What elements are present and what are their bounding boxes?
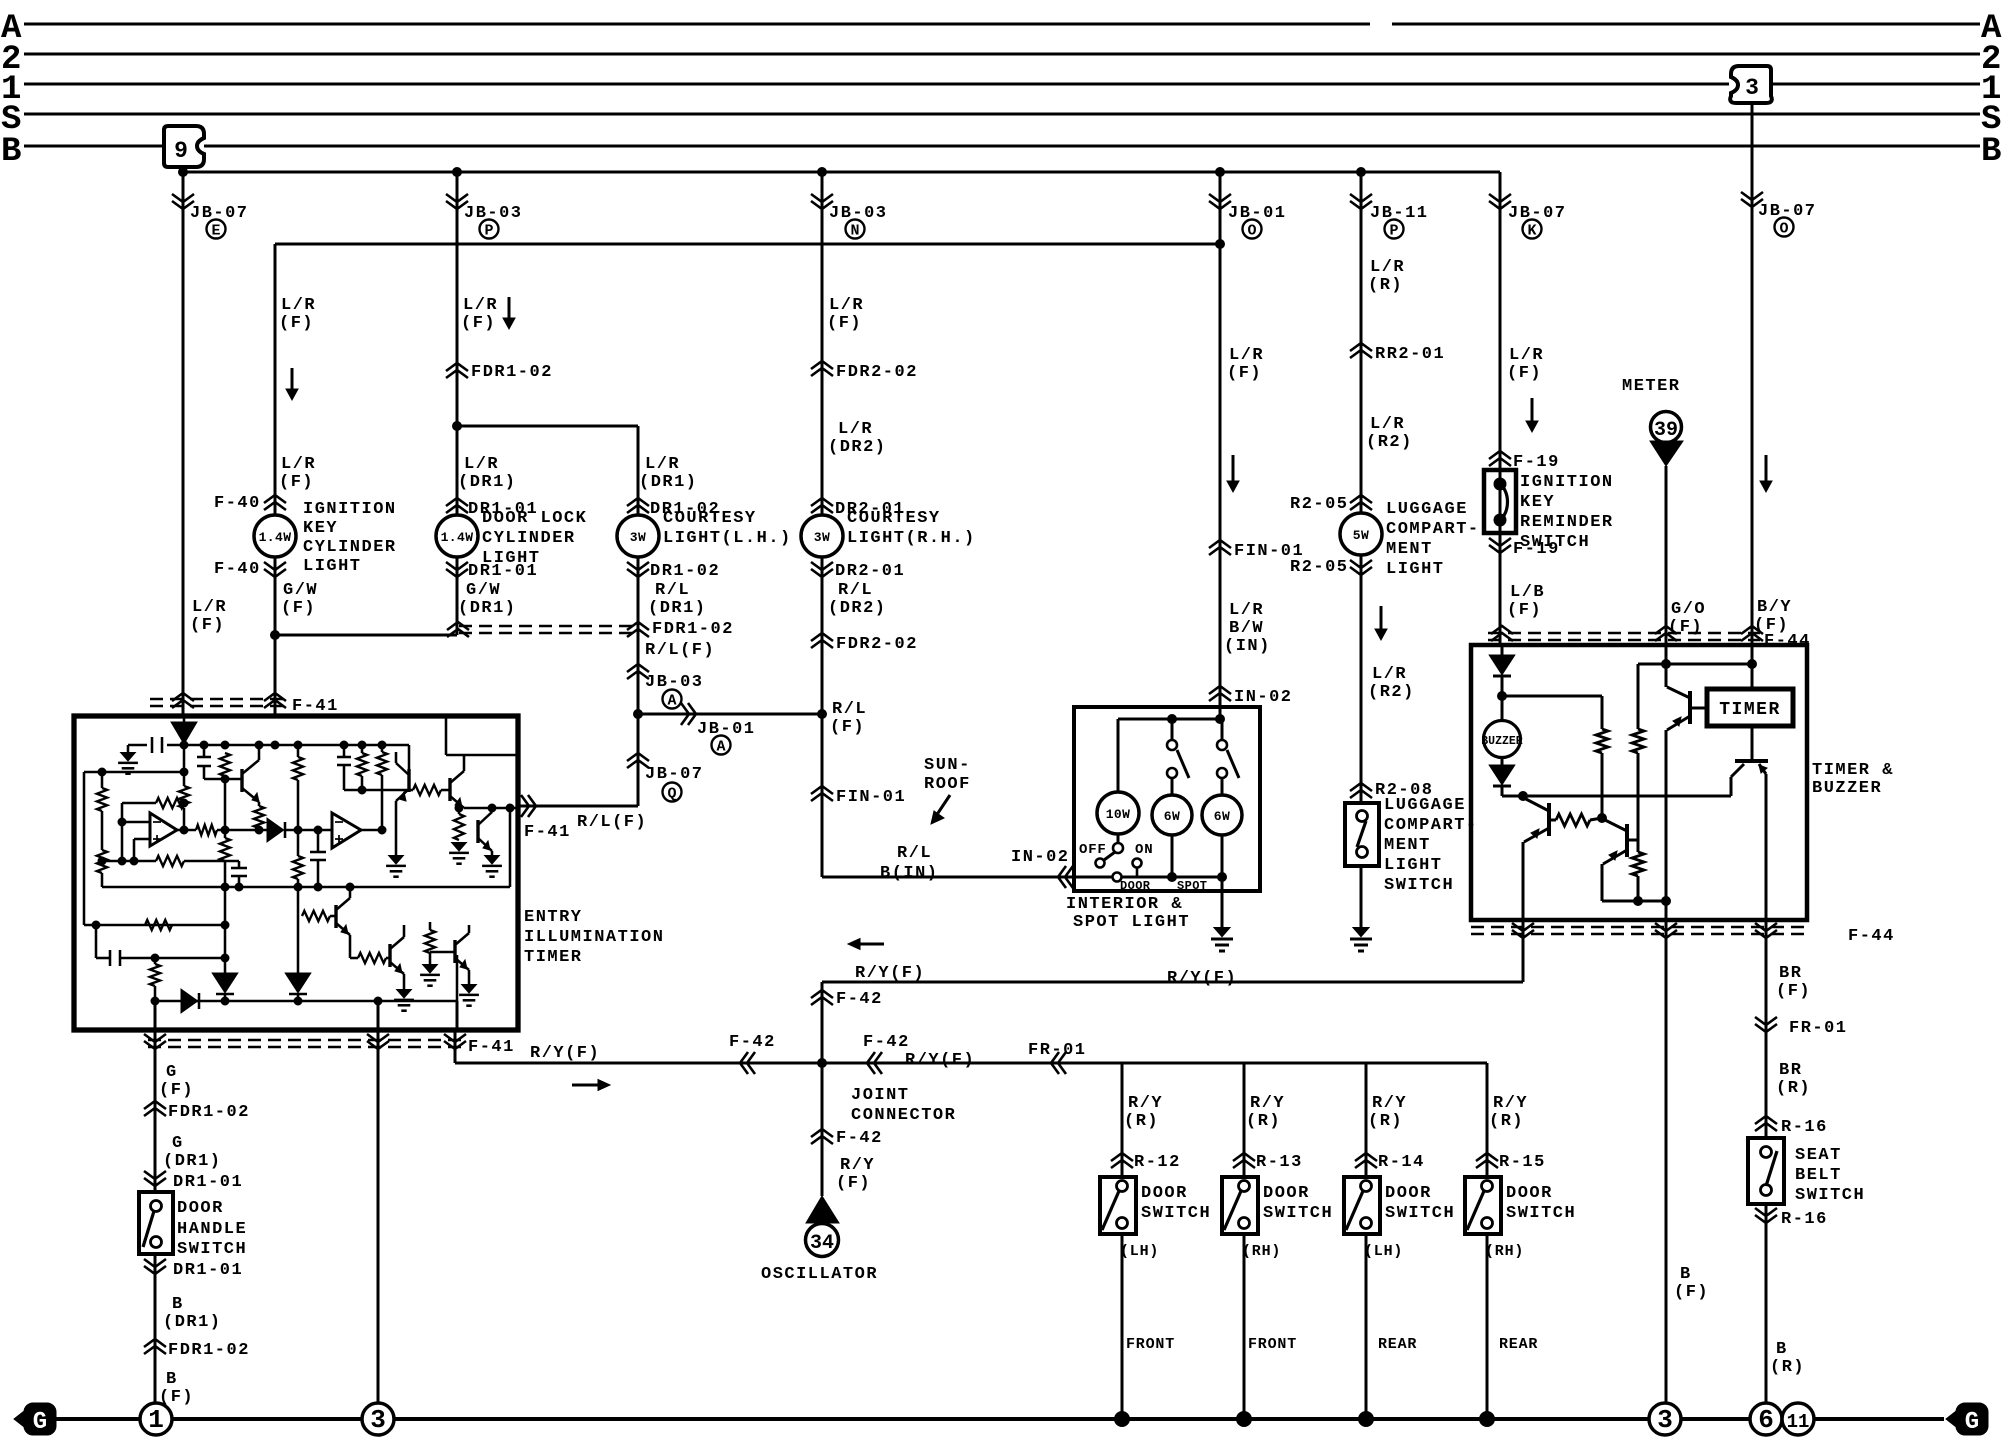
transistor Q4 output: [1731, 761, 1768, 796]
label LUGGAGE COMPART-MENT LIGHT SWITCH: [1384, 796, 1478, 895]
connector FIN-01 chevron x=822: [811, 786, 833, 801]
resistor RC x=225 lower: [220, 838, 230, 887]
svg-text:L/R: L/R: [1229, 601, 1264, 620]
svg-text:COMPART-: COMPART-: [1386, 520, 1480, 539]
inner top-right L wire: [446, 716, 518, 755]
svg-text:(RH): (RH): [1485, 1243, 1524, 1260]
label L/R (DR2): [828, 420, 887, 457]
svg-text:O: O: [1247, 223, 1256, 240]
svg-text:DOOR: DOOR: [1141, 1184, 1188, 1203]
svg-text:IGNITION: IGNITION: [303, 500, 397, 519]
svg-text:3: 3: [370, 1405, 386, 1435]
label FDR1-02 x=155 upper: [168, 1103, 250, 1122]
wire internal rail y=887: [102, 886, 510, 889]
bus node circle 1: [140, 1403, 172, 1435]
svg-text:Q: Q: [667, 786, 676, 803]
connector F-44 lower chevron x=1523: [1512, 923, 1534, 938]
switch seat belt switch: [1748, 1138, 1784, 1204]
wire meter branch inside box x=1666: [1665, 645, 1668, 687]
bus line 2: [24, 53, 1980, 56]
label R-15: [1499, 1153, 1546, 1172]
svg-text:K: K: [1527, 223, 1536, 240]
wire Q2 emitter to rail y=901: [1602, 864, 1666, 901]
label COURTESY LIGHT(L.H.): [663, 509, 792, 548]
label F-19 lower: [1513, 540, 1560, 559]
label R2-05 upper: [1290, 495, 1349, 514]
label F-41 lower: [468, 1038, 515, 1057]
label R-14: [1378, 1153, 1425, 1172]
wire 10W bulb drop x=1118: [1117, 719, 1120, 843]
wire internal rail y=664: [1638, 663, 1752, 666]
svg-text:FR-01: FR-01: [1789, 1019, 1848, 1038]
label F-41 upper: [292, 697, 339, 716]
svg-text:G/W: G/W: [283, 581, 318, 600]
connector JB-03(N) chevron: [811, 194, 833, 209]
label B (R): [1770, 1340, 1805, 1377]
svg-text:DR1-01: DR1-01: [173, 1261, 243, 1280]
svg-text:SUN-: SUN-: [924, 756, 971, 775]
svg-text:SWITCH: SWITCH: [1384, 876, 1454, 895]
svg-text:L/R: L/R: [281, 296, 316, 315]
label B (F) right: [1674, 1265, 1709, 1302]
connector FDR2-02 chevron upper: [811, 361, 833, 376]
wire bottom line y=1001: [155, 1000, 457, 1003]
label DR1-01 x=155 lower: [173, 1261, 243, 1280]
connector F-42 chevron oscillator: [811, 1129, 833, 1144]
wire buzzer to diode D2: [1501, 757, 1504, 766]
svg-text:R/L: R/L: [832, 700, 867, 719]
svg-text:P: P: [1389, 223, 1398, 240]
connector DR2-01 upper chevron: [811, 498, 833, 513]
svg-text:BR: BR: [1779, 964, 1802, 983]
wire TIMER to Q4 base: [1751, 726, 1754, 759]
bus line 1: [24, 83, 1980, 86]
label JB-07(O): [1758, 202, 1817, 221]
svg-text:IN-02: IN-02: [1234, 688, 1293, 707]
junction dot 275,635: [271, 631, 280, 640]
wire R/Y(F) lower y=1063: [455, 1062, 1487, 1065]
wire F-41 exit line y=808: [464, 807, 518, 810]
label L/R (F) x=183: [190, 598, 227, 635]
lamp spot light RH 6W: [1202, 795, 1242, 877]
wire door switch column x=1366: [1365, 1063, 1368, 1177]
label IGNITION KEY CYLINDER LIGHT: [303, 500, 397, 576]
svg-text:COURTESY: COURTESY: [663, 509, 757, 528]
lamp spot light LH 6W: [1152, 795, 1192, 877]
svg-text:R/Y: R/Y: [1372, 1094, 1407, 1113]
wire oscillator column x=822: [821, 1063, 824, 1196]
label L/R (R2) lower: [1368, 665, 1415, 702]
sunroof pointer arrow: [931, 795, 950, 824]
connector F-19 lower chevron: [1489, 538, 1511, 553]
junction dots on y=172 rail: [179, 168, 1366, 177]
connector DR1-02 upper chevron: [627, 498, 649, 513]
bus label A left: [1, 10, 22, 48]
switch luggage compartment light switch: [1345, 803, 1379, 866]
svg-text:SPOT LIGHT: SPOT LIGHT: [1073, 913, 1190, 932]
svg-text:(DR1): (DR1): [163, 1152, 222, 1171]
label DOOR: [1120, 879, 1151, 893]
lamp luggage compartment light 5W: [1340, 513, 1382, 555]
resistor RE y=861: [156, 856, 184, 866]
connector F-44 lower chevron x=1766: [1755, 923, 1777, 938]
label L/R (F) upper x=275: [279, 296, 316, 333]
svg-text:(R2): (R2): [1366, 433, 1413, 452]
junction dot ground bus x=1366: [1359, 1412, 1374, 1427]
svg-text:BUZZER: BUZZER: [1481, 735, 1523, 748]
label FR-01 x=1766: [1789, 1019, 1848, 1038]
svg-text:R2-05: R2-05: [1290, 495, 1349, 514]
svg-text:BR: BR: [1779, 1061, 1802, 1080]
label LUGGAGE COMPART-MENT LIGHT: [1386, 500, 1480, 579]
ground luggage switch: [1350, 928, 1372, 951]
svg-text:SWITCH: SWITCH: [1141, 1204, 1211, 1223]
svg-text:R-15: R-15: [1499, 1153, 1546, 1172]
label F-44 upper: [1764, 632, 1811, 651]
svg-text:L/R: L/R: [463, 296, 498, 315]
wire B(F) column x=1666 to ground bus: [1665, 920, 1668, 1403]
wire exit x=378 from box: [377, 1001, 380, 1403]
junction dots on y=719: [1168, 715, 1225, 724]
wire timer output to R/Y line x=1523: [1522, 920, 1525, 982]
transistor T3: [450, 755, 464, 808]
svg-text:L/R: L/R: [1372, 665, 1407, 684]
svg-text:DR1-01: DR1-01: [468, 562, 538, 581]
down arrow x=1766: [1760, 455, 1772, 492]
op-amp A2: [332, 813, 361, 848]
svg-text:ENTRY: ENTRY: [524, 908, 583, 927]
wire left outer column x=84: [83, 772, 86, 925]
svg-text:(LH): (LH): [1364, 1243, 1403, 1260]
connector F-19 upper chevron: [1489, 451, 1511, 466]
lamp door lock cylinder light 1.4W: [436, 515, 478, 557]
label (RH): [1485, 1243, 1524, 1260]
transistor T4: [336, 887, 350, 935]
svg-text:R2-05: R2-05: [1290, 558, 1349, 577]
label R/Y(F) upper right: [1167, 969, 1237, 988]
bus label S left: [1, 101, 21, 139]
wire rail stub to ground G1: [127, 745, 130, 753]
svg-text:MENT: MENT: [1386, 540, 1433, 559]
label F-42 oscillator: [836, 1129, 883, 1148]
label ENTRY ILLUMINATION TIMER: [524, 908, 664, 967]
resistor R4 x=1638 lower: [1632, 840, 1644, 901]
svg-text:L/B: L/B: [1510, 583, 1545, 602]
wire internal bus y=877: [1122, 876, 1222, 879]
label (RH): [1242, 1243, 1281, 1260]
svg-text:FIN-01: FIN-01: [836, 788, 906, 807]
wire x=822 from upper R/Y to lower R/Y: [821, 982, 824, 1063]
diode D3 y=1001: [182, 991, 199, 1011]
ground bus line: [54, 1417, 1944, 1421]
label JB-11(P): [1370, 204, 1429, 223]
junction dot 1602,818: [1598, 814, 1607, 823]
connector FDR2-02 chevron lower: [811, 633, 833, 648]
junction dots y=830: [221, 826, 322, 834]
circled A lower: [712, 736, 731, 756]
label L/R (F) x=822: [827, 296, 864, 333]
wire exit x=455 from box to R/Y line: [455, 1001, 457, 1063]
svg-text:L/R: L/R: [281, 455, 316, 474]
resistor RI x=298 lower: [293, 830, 303, 887]
wire sunroof to interior light y=877: [822, 876, 1112, 879]
interior switch OFF/ON: [1096, 843, 1142, 877]
connector FDR1-02 chevron x=155 lower: [144, 1339, 166, 1354]
svg-text:P: P: [484, 223, 493, 240]
svg-text:(R): (R): [1368, 1112, 1403, 1131]
label REAR: [1378, 1336, 1417, 1353]
label R/Y (F) oscillator: [836, 1156, 875, 1193]
junction dot 1502,696: [1498, 692, 1507, 701]
lamp interior light 10W: [1097, 792, 1139, 834]
svg-text:R-12: R-12: [1134, 1153, 1181, 1172]
wire x=184 diode to output node: [183, 744, 186, 830]
lamp ignition key cylinder light 1.4W: [254, 515, 296, 557]
label L/R (DR1) x=638: [639, 455, 698, 492]
connector R2-08 chevron: [1350, 783, 1372, 798]
bus node circle 6: [1750, 1403, 1782, 1435]
left arrow marker: [848, 939, 884, 950]
lamp courtesy light RH 3W: [801, 515, 843, 557]
svg-text:(F): (F): [461, 314, 496, 333]
ground interior light: [1211, 928, 1233, 951]
svg-text:F-42: F-42: [836, 1129, 883, 1148]
svg-text:FR-01: FR-01: [1028, 1041, 1087, 1060]
connector F-41 output chevron: [521, 795, 536, 817]
svg-text:R/Y(F): R/Y(F): [855, 964, 925, 983]
label R2-08: [1375, 781, 1434, 800]
resistor RJ x=362: [357, 745, 367, 790]
label DR2-01 lower: [835, 562, 905, 581]
resistor R1 timer box: [1596, 729, 1608, 818]
bus label 2 left: [1, 41, 21, 79]
svg-text:(F): (F): [159, 1081, 194, 1100]
label F-42 horizontal 2: [863, 1033, 910, 1052]
connector JB-07(Q) chevron: [627, 753, 649, 768]
resistor RH x=298 upper: [293, 745, 303, 830]
connector DR1-02 lower chevron: [627, 562, 649, 577]
svg-text:L/R: L/R: [645, 455, 680, 474]
right arrow marker: [572, 1080, 610, 1091]
wire mid line y=830: [177, 829, 332, 832]
wire door switch R-15 to ground bus: [1486, 1234, 1489, 1419]
wire A1 minus feedback x=122: [118, 803, 126, 865]
diode D5 x=225: [214, 974, 236, 1001]
wire y=1001 right corner up: [456, 955, 459, 1001]
label L/R (DR1) x=457: [458, 455, 517, 492]
connector DR1-01 chevron x=155 upper: [144, 1171, 166, 1186]
svg-text:L/R: L/R: [1370, 415, 1405, 434]
connector F-44 chevron x=1666: [1655, 626, 1677, 641]
wire x=298 to diode D4: [297, 916, 300, 974]
svg-text:DOOR: DOOR: [1506, 1184, 1553, 1203]
junction dot 457,426: [453, 422, 462, 431]
junction dot ground bus x=1244: [1237, 1412, 1252, 1427]
connector FIN-01 chevron x=1220: [1209, 540, 1231, 555]
label (LH): [1364, 1243, 1403, 1260]
label DR1-01 upper: [468, 500, 538, 519]
label DR2-01 upper: [835, 500, 905, 519]
svg-text:(F): (F): [1507, 364, 1542, 383]
svg-text:(F): (F): [279, 473, 314, 492]
svg-text:R/Y: R/Y: [1128, 1094, 1163, 1113]
wire right edge column x=510: [506, 804, 514, 887]
svg-text:B: B: [1680, 1265, 1692, 1284]
label JB-07(K): [1508, 204, 1567, 223]
label R/L (DR1): [648, 581, 707, 618]
label G/W (F): [281, 581, 318, 618]
label F-19 upper: [1513, 453, 1560, 472]
label FR-01 horizontal: [1028, 1041, 1087, 1060]
svg-text:L/R: L/R: [1370, 258, 1405, 277]
ground G5 in box: [394, 990, 414, 1011]
label R/L B(IN): [880, 844, 939, 883]
switch spot RH x=1222: [1217, 719, 1239, 795]
bus line B: [24, 145, 1980, 148]
svg-text:FDR1-02: FDR1-02: [168, 1341, 250, 1360]
label RR2-01: [1375, 345, 1445, 364]
svg-text:CYLINDER: CYLINDER: [482, 529, 576, 548]
svg-text:SWITCH: SWITCH: [1385, 1204, 1455, 1223]
label R/Y(F) after F-42: [905, 1051, 975, 1070]
svg-text:6W: 6W: [1164, 809, 1180, 824]
label FDR1-02 x=638: [652, 620, 734, 639]
label L/R (R): [1368, 258, 1405, 295]
svg-text:(F): (F): [281, 599, 316, 618]
label G (F): [159, 1063, 194, 1100]
connector JB-07(K) chevron: [1489, 194, 1511, 209]
diode D2: [1491, 766, 1513, 786]
connector JB-01(O) chevron: [1209, 194, 1231, 209]
svg-text:A: A: [716, 739, 725, 756]
label SPOT: [1177, 879, 1207, 893]
label FRONT: [1248, 1336, 1297, 1353]
wire R/Y(F) upper y=982: [822, 981, 1523, 984]
svg-text:O: O: [1779, 221, 1788, 238]
capacitor C1 series in rail: [152, 737, 162, 753]
label JB-03(A): [645, 673, 704, 692]
wire B/Y to TIMER x=1752: [1751, 645, 1754, 689]
svg-text:1.4W: 1.4W: [259, 530, 292, 545]
switch door handle switch: [139, 1192, 173, 1254]
svg-text:3W: 3W: [630, 530, 646, 545]
connector chevron at 462,622: [447, 622, 469, 637]
connector F-41 chevron x=275: [264, 693, 286, 708]
svg-text:L/R: L/R: [464, 455, 499, 474]
label G/W (DR1): [458, 581, 517, 618]
connector F-42 chevron horizontal 2: [867, 1052, 882, 1074]
svg-text:F-19: F-19: [1513, 540, 1560, 559]
down arrow x=1381: [1375, 606, 1387, 640]
label R/L(F) x=638: [645, 641, 715, 660]
label REAR: [1499, 1336, 1538, 1353]
circled O: [1243, 220, 1262, 240]
connector DR1-01 upper chevron: [446, 498, 468, 513]
svg-text:R/Y: R/Y: [1493, 1094, 1528, 1113]
svg-text:R/L: R/L: [838, 581, 873, 600]
harness dashed F-44 upper: [1488, 633, 1760, 640]
left column x=102 resistors: [97, 772, 107, 887]
connector FDR1-02 chevron x=638: [627, 622, 649, 637]
circled K: [1523, 220, 1542, 240]
bus label 1 right: [1981, 71, 2001, 109]
transistor T5: [478, 804, 496, 856]
wire x=225 long drop: [224, 887, 227, 974]
label F-40 lower: [214, 560, 261, 579]
svg-text:(R): (R): [1368, 276, 1403, 295]
label R/L (F) x=822: [830, 700, 867, 737]
ground G4 in box: [482, 856, 502, 877]
svg-text:DOOR: DOOR: [1385, 1184, 1432, 1203]
svg-text:FDR1-02: FDR1-02: [471, 363, 553, 382]
connector FDR1-02 chevron x=457 y=363: [446, 363, 468, 378]
svg-text:L/R: L/R: [829, 296, 864, 315]
svg-text:6W: 6W: [1214, 809, 1230, 824]
label SUN-ROOF: [924, 756, 971, 794]
svg-text:DOOR: DOOR: [1120, 879, 1151, 893]
meter arrow triangle: [1650, 441, 1683, 466]
connector DR1-01 chevron x=155 lower: [144, 1259, 166, 1274]
wire y=958 to x=225: [151, 954, 229, 962]
wire column JB-11(P) x=1361: [1360, 172, 1363, 803]
lamp courtesy light LH 3W: [617, 515, 659, 557]
ground G1 in box: [118, 753, 138, 774]
svg-text:3: 3: [1657, 1405, 1673, 1435]
wire door switch R-12 to ground bus: [1121, 1234, 1124, 1419]
svg-text:FDR2-02: FDR2-02: [836, 635, 918, 654]
junction dot ground bus x=1487: [1480, 1412, 1495, 1427]
label G/O (F): [1668, 600, 1706, 637]
svg-text:B(IN): B(IN): [880, 864, 939, 883]
meter connector circle 39: [1651, 412, 1682, 443]
svg-text:(DR1): (DR1): [648, 599, 707, 618]
wire T2 emitter to ground G2: [395, 801, 398, 856]
capacitor C6 y=958: [96, 950, 155, 966]
circled A upper: [663, 690, 682, 710]
wire node to resistor branch y=696: [1502, 696, 1602, 729]
label BR (F): [1776, 964, 1811, 1001]
svg-text:JOINT: JOINT: [851, 1086, 910, 1105]
label B/Y (F): [1754, 598, 1792, 635]
svg-text:(F): (F): [1507, 601, 1542, 620]
wire column courtesy RH x=822: [821, 172, 824, 877]
connector F-40 upper chevron: [264, 495, 286, 510]
svg-text:INTERIOR &: INTERIOR &: [1066, 895, 1183, 914]
svg-text:REAR: REAR: [1499, 1336, 1538, 1353]
connector DR1-01 lower chevron: [446, 562, 468, 577]
bus label B left: [1, 133, 21, 171]
label JB-03(N): [829, 204, 888, 223]
wire A2 output: [361, 826, 386, 834]
svg-text:FDR1-02: FDR1-02: [652, 620, 734, 639]
resistor RP T4 base y=916: [298, 887, 336, 921]
resistor R3 x=1638: [1632, 664, 1644, 840]
wire internal rail y=719: [1118, 707, 1220, 719]
label FDR2-02 lower: [836, 635, 918, 654]
svg-text:(R): (R): [1124, 1112, 1159, 1131]
resistor R2 Q1 base: [1556, 814, 1602, 826]
svg-text:F-44: F-44: [1848, 927, 1895, 946]
wire column JB-07(O) x=1752: [1751, 103, 1754, 645]
connector box 3 on bus 1: [1730, 66, 1772, 103]
junction dots y=877: [1168, 873, 1227, 882]
svg-text:R/L(F): R/L(F): [577, 813, 647, 832]
label INTERIOR & SPOT LIGHT: [1066, 895, 1190, 932]
capacitor C5 x=344: [337, 745, 351, 790]
harness dashed F-41 lower: [148, 1040, 462, 1047]
label IN-02 left: [1011, 848, 1070, 867]
junction dot ground bus x=1122: [1115, 1412, 1130, 1427]
